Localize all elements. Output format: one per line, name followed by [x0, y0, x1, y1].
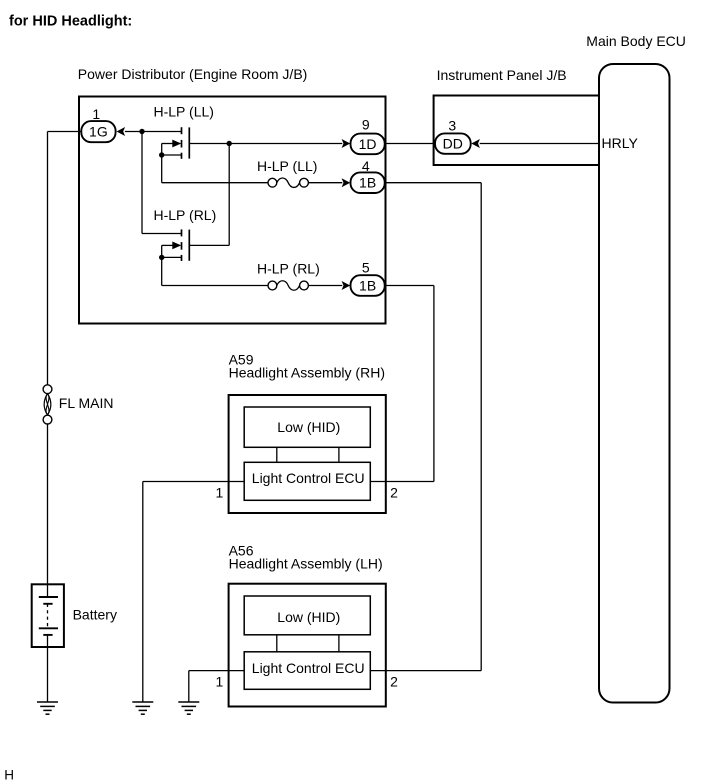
svg-text:9: 9 [362, 117, 370, 133]
svg-text:3: 3 [448, 118, 456, 134]
arrowhead into 1G [117, 127, 126, 136]
wire: 1G to transistor drains (node with junction) [125, 131, 182, 133]
svg-text:FL MAIN: FL MAIN [59, 395, 114, 411]
wire: RH lamp to ECU stub left [276, 447, 278, 462]
ECU: Light Control ECU LH box [244, 652, 370, 690]
svg-text:DD: DD [443, 136, 463, 152]
connector DD [435, 133, 471, 153]
svg-text:5: 5 [362, 260, 370, 276]
wire: 1B pin 4 to node, right [386, 182, 482, 184]
svg-text:Low (HID): Low (HID) [277, 419, 340, 435]
ECU: Main Body ECU outline [599, 64, 670, 703]
wire: battery positive to connector 1G (horizontal) [48, 131, 82, 133]
svg-text:1: 1 [216, 484, 224, 500]
headlight assembly A56 (LH) outline [229, 584, 386, 707]
svg-text:1: 1 [216, 673, 224, 689]
svg-text:Main Body ECU: Main Body ECU [586, 33, 686, 49]
connector 1B (pin 4) [351, 172, 385, 193]
svg-text:Power Distributor (Engine Room: Power Distributor (Engine Room J/B) [78, 66, 308, 82]
wire: LH lamp to ECU stub left [276, 635, 278, 652]
ground: RH headlight [132, 702, 153, 714]
svg-text:Low (HID): Low (HID) [277, 609, 340, 625]
svg-text:Headlight Assembly (RH): Headlight Assembly (RH) [229, 364, 385, 380]
svg-text:1D: 1D [359, 136, 377, 152]
wire: battery negative to ground [47, 647, 49, 702]
connector 1G [81, 121, 115, 142]
transistor Q2 H-LP (RL) MOSFET [162, 229, 190, 261]
connector 1B (pin 5) [351, 275, 385, 296]
wire: RH ground vertical [142, 482, 144, 703]
svg-text:for HID Headlight:: for HID Headlight: [9, 14, 132, 30]
fuse H-LP (RL) [268, 281, 308, 290]
wire: Q2 drain horizontal [142, 233, 182, 235]
wire: drain node down to Q2 drain [141, 132, 143, 234]
svg-text:2: 2 [390, 484, 398, 500]
junction box: Power Distributor (Engine Room J/B) outline [79, 97, 386, 324]
wire: 1D to DD [385, 143, 435, 145]
wire: gate node down to Q2 gate [228, 144, 230, 246]
ECU: Light Control ECU RH box [244, 462, 370, 500]
wire: fuse H-LP (LL) to connector 1B pin 4 [308, 182, 342, 184]
wire: horizontal into RH light control ECU pin 2 [370, 481, 434, 483]
wire: FL MAIN to battery [47, 424, 49, 584]
wire: LH ground vertical [188, 671, 190, 702]
svg-text:Headlight Assembly (LH): Headlight Assembly (LH) [229, 556, 383, 572]
ground: battery [37, 702, 58, 714]
headlight assembly A59 (RH) outline [229, 395, 386, 513]
junction box: Instrument Panel J/B outline [434, 96, 599, 166]
svg-text:4: 4 [362, 158, 370, 174]
arrowhead into 1B pin 5 [342, 281, 351, 290]
wire: RH lamp to ECU stub right [338, 447, 340, 462]
svg-text:H-LP (RL): H-LP (RL) [154, 207, 217, 223]
svg-text:Light Control ECU: Light Control ECU [252, 470, 365, 486]
svg-text:1B: 1B [359, 277, 376, 293]
svg-text:1B: 1B [359, 175, 376, 191]
svg-text:Battery: Battery [73, 607, 117, 623]
fuse H-LP (LL) [268, 178, 308, 187]
wire: main battery feed vertical to FL MAIN [47, 132, 49, 386]
junction dot: drain node [139, 129, 144, 134]
svg-text:2: 2 [390, 673, 398, 689]
wire: RH pin 1 to ground run [143, 481, 244, 483]
svg-text:HRLY: HRLY [602, 135, 639, 151]
svg-text:H: H [4, 768, 14, 782]
arrowhead into DD [471, 139, 480, 148]
junction dot: Q1 source tie [159, 152, 164, 157]
wire: Q1 gate to connector 1D [189, 143, 342, 145]
wire: LH pin 1 to ground run [189, 670, 244, 672]
wire: vertical down to RH headlight pin 2 [433, 286, 435, 482]
wire: Q2 source to fuse H-LP (RL) [162, 285, 268, 287]
wire: Q2 gate horizontal [189, 244, 229, 246]
wire: vertical down to LH headlight pin 2 [480, 183, 482, 671]
wire: Q1 body/source tie vertical [161, 144, 163, 183]
arrowhead into 1D [342, 139, 351, 148]
svg-text:Instrument Panel J/B: Instrument Panel J/B [437, 67, 567, 83]
junction dot: Q2 source tie [159, 255, 164, 260]
battery [32, 584, 64, 647]
ground: LH headlight [178, 702, 199, 714]
connector 1D [351, 134, 385, 155]
lamp: Low (HID) LH box [244, 596, 370, 635]
junction dot: gate node [227, 141, 232, 146]
lamp: Low (HID) RH box [244, 407, 370, 447]
svg-text:H-LP (RL): H-LP (RL) [257, 261, 320, 277]
wire: fuse H-LP (RL) to connector 1B pin 5 [308, 285, 342, 287]
svg-text:1G: 1G [89, 124, 108, 140]
svg-text:H-LP (LL): H-LP (LL) [154, 104, 214, 120]
svg-text:1: 1 [92, 106, 100, 122]
wire: 1B pin 5 to node, right [386, 285, 434, 287]
wire: LH lamp to ECU stub right [338, 635, 340, 652]
wire: Q1 source to fuse H-LP (LL) [162, 182, 268, 184]
transistor Q1 H-LP (LL) MOSFET [162, 127, 190, 159]
wire: Q2 body/source tie vertical [161, 245, 163, 285]
wire: horizontal into LH light control ECU pin 2 [370, 670, 481, 672]
fusible link FL MAIN [43, 385, 52, 424]
svg-text:Light Control ECU: Light Control ECU [252, 660, 365, 676]
wire: DD to Main Body ECU HRLY [480, 143, 599, 145]
arrowhead into 1B pin 4 [342, 178, 351, 187]
svg-text:H-LP (LL): H-LP (LL) [257, 158, 317, 174]
